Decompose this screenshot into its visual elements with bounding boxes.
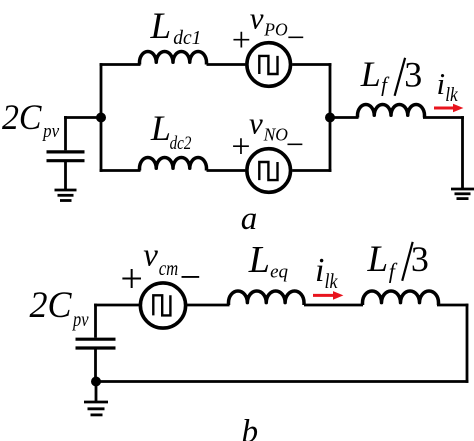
- svg-text:pv: pv: [41, 121, 59, 142]
- wire right drop to ground (a): [461, 116, 464, 189]
- node left junction (a): [96, 113, 106, 123]
- wire bottom branch right (a): [292, 169, 331, 172]
- capacitor 2Cpv (b) bottom lead: [94, 350, 97, 382]
- inductor Ldc1: [140, 52, 207, 65]
- wire junction to ground (b): [95, 382, 98, 403]
- svg-text:−: −: [180, 256, 201, 298]
- source vNO circle: [247, 149, 291, 193]
- wire cap top to vcm (b): [94, 304, 139, 307]
- svg-text:lk: lk: [325, 269, 339, 293]
- source vcm circle: [140, 283, 185, 328]
- svg-text:2C: 2C: [2, 97, 42, 137]
- ground right (a): [451, 189, 474, 199]
- node right junction (a): [325, 113, 335, 123]
- svg-text:L: L: [360, 54, 381, 94]
- svg-text:L: L: [248, 239, 270, 281]
- capacitor 2Cpv (a) top lead: [64, 116, 67, 150]
- wire vcm to Leq (b): [186, 304, 230, 307]
- wire right vertical (b): [466, 304, 469, 383]
- svg-text:dc2: dc2: [170, 134, 192, 154]
- inductor Leq: [229, 291, 305, 305]
- svg-text:lk: lk: [445, 85, 458, 106]
- ground left (a): [55, 190, 77, 201]
- wire mid to Lf3 (a): [330, 116, 359, 119]
- svg-text:+: +: [120, 256, 143, 301]
- svg-text:L: L: [150, 6, 172, 47]
- svg-text:v: v: [250, 0, 264, 35]
- svg-text:NO: NO: [263, 124, 289, 144]
- current arrow ilk (a): [434, 104, 463, 113]
- svg-text:a: a: [241, 201, 257, 237]
- ground (b): [84, 402, 108, 415]
- inductor Lf/3 (a): [358, 105, 425, 118]
- svg-text:pv: pv: [71, 309, 88, 331]
- source vPO square-wave glyph: [259, 56, 277, 74]
- wire Lf3 to right corner (b): [437, 304, 468, 307]
- svg-text:i: i: [437, 66, 446, 101]
- wire Leq to Lf3 (b): [304, 304, 363, 307]
- source vcm square-wave glyph: [153, 295, 170, 315]
- svg-text:+: +: [232, 22, 251, 59]
- wire right vertical bus (a): [329, 63, 332, 172]
- capacitor 2Cpv (a) bottom lead: [64, 162, 67, 190]
- capacitor 2Cpv (b) plates: [76, 339, 116, 348]
- svg-text:b: b: [242, 414, 259, 441]
- source vPO circle: [247, 43, 291, 87]
- svg-text:cm: cm: [159, 256, 179, 280]
- wire left vertical bus (a): [100, 63, 103, 172]
- wire bottom branch mid (a): [207, 169, 246, 172]
- svg-text:L: L: [367, 239, 389, 280]
- inductor Ldc2: [140, 158, 207, 171]
- svg-text:eq: eq: [270, 262, 288, 283]
- wire top branch mid (a): [207, 63, 246, 66]
- wire bottom branch left (a): [100, 169, 141, 172]
- svg-text:v: v: [249, 105, 263, 140]
- svg-text:L: L: [150, 108, 171, 148]
- svg-text:+: +: [231, 129, 250, 166]
- svg-text:PO: PO: [263, 20, 288, 40]
- capacitor 2Cpv (b) top lead: [94, 304, 97, 338]
- wire bottom return (b): [96, 380, 468, 383]
- wire cap to left node (a): [64, 116, 101, 119]
- svg-text:3: 3: [411, 239, 429, 279]
- wire top branch right (a): [292, 63, 331, 66]
- node bottom junction (b): [91, 377, 101, 387]
- inductor Lf/3 (b): [363, 291, 439, 305]
- svg-text:−: −: [287, 19, 305, 55]
- svg-text:i: i: [315, 252, 324, 289]
- wire Lf3 to right corner (a): [423, 116, 464, 119]
- svg-text:dc1: dc1: [173, 28, 201, 49]
- current arrow ilk (b): [313, 291, 343, 300]
- svg-text:−: −: [286, 126, 304, 162]
- svg-text:v: v: [143, 237, 158, 273]
- svg-text:2C: 2C: [30, 285, 73, 326]
- svg-text:3: 3: [404, 54, 422, 94]
- wire top branch left (a): [100, 63, 141, 66]
- capacitor 2Cpv (a) plates: [47, 152, 85, 161]
- source vNO square-wave glyph: [259, 162, 277, 180]
